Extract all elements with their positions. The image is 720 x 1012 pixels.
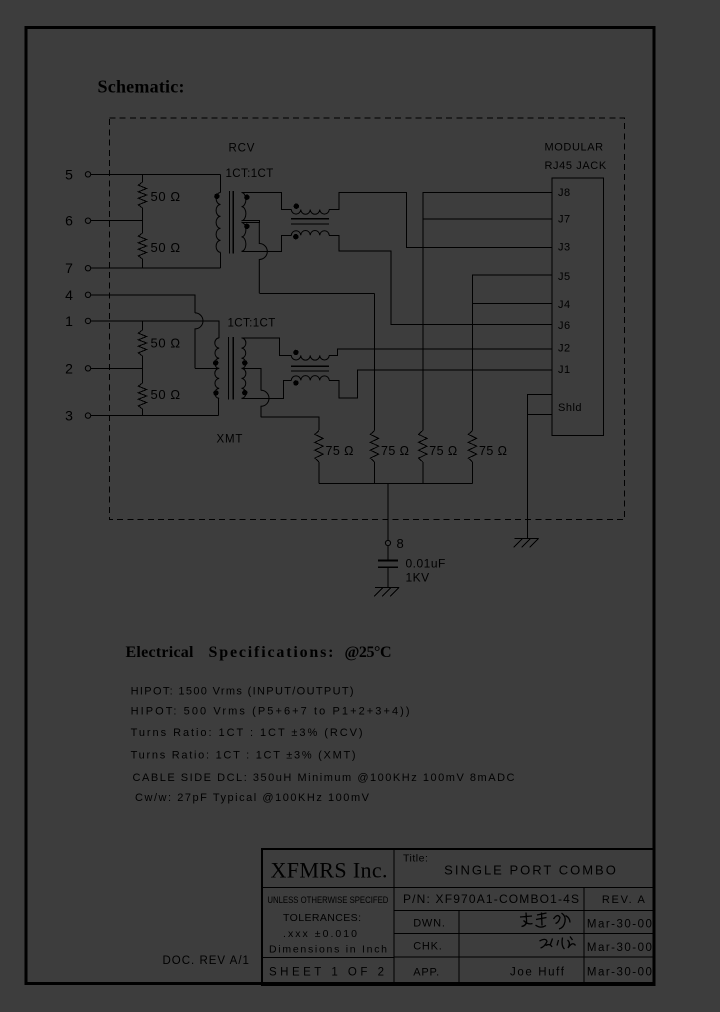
transformer T2 primary dots [213,360,218,365]
svg-text:RCV: RCV [229,143,256,155]
transformer T1 secondary lower winding [242,223,246,252]
choke L1 lower winding [291,231,329,236]
wire T1 secondary top to choke L1 upper [242,193,292,210]
wire T1 secondary bottom to choke L1 lower [242,235,292,251]
svg-text:50 Ω: 50 Ω [151,387,181,402]
svg-text:SINGLE PORT COMBO: SINGLE PORT COMBO [444,863,618,878]
wire T1 center tap to R6 [259,292,374,294]
svg-text:Specifications:: Specifications: [209,644,334,661]
wire J7 branch [423,218,552,220]
transformer T2 primary bottom lead [218,398,220,415]
wire T2 secondary bottom to choke L2 lower [242,380,292,398]
svg-text:Schematic:: Schematic: [98,77,185,97]
svg-text:75 Ω: 75 Ω [326,444,354,458]
wire bus to node 8 [387,483,389,540]
resistor R3 50ohm [138,330,146,356]
svg-text:REV. A: REV. A [602,894,646,906]
pin 3 terminal circle [85,413,90,418]
wire pin4 to XMT primary center tap with hop over pin1 wire [91,295,195,313]
title block horizontal DWN row bottom [394,933,654,935]
resistor R4 50ohm [138,383,146,409]
wire node 8 to C1 [387,546,389,560]
svg-text:J3: J3 [558,242,571,254]
svg-text:8: 8 [397,536,404,551]
svg-text:Cw/w: 27pF Typical @100KHz 100: Cw/w: 27pF Typical @100KHz 100mV [135,792,370,804]
wire pin2 to 50ohm junction [91,367,143,369]
transformer T1 secondary lower dot [244,224,249,229]
wire R5 bottom stub [318,462,320,483]
svg-text:Electrical: Electrical [126,644,195,661]
svg-text:DWN.: DWN. [413,917,446,929]
svg-text:5: 5 [65,166,73,182]
capacitor C1 plates [378,560,398,562]
svg-text:Dimensions in Inch: Dimensions in Inch [269,943,387,955]
svg-text:75 Ω: 75 Ω [479,444,507,458]
connector J1 RJ45 jack body [552,178,604,436]
title block vertical divider dates [583,887,585,985]
wire R8 bottom stub [472,462,474,483]
svg-text:6: 6 [65,213,73,229]
wire C1 to ground [387,567,389,587]
svg-text:Joe Huff: Joe Huff [510,966,565,978]
pin 6 terminal circle [85,218,90,223]
signature DWN chinese [520,913,570,930]
wire T1 center tap bracket [242,221,260,223]
svg-text:2: 2 [65,360,73,376]
wire R3 bottom to R4 top (junction pin2) [142,356,144,383]
wire J8 from R7 net [423,192,552,430]
resistor R8 75ohm [468,431,476,463]
wire choke L1 lower out to J6 [329,235,552,324]
svg-text:Mar-30-00: Mar-30-00 [587,942,652,954]
svg-text:75 Ω: 75 Ω [429,444,457,458]
wire R2 bottom stub [142,259,144,268]
resistor R7 75ohm [419,431,427,463]
wire choke L1 upper out to J3 [329,192,552,247]
choke L2 upper winding [291,355,329,360]
svg-text:CHK.: CHK. [413,941,442,953]
wire pin5 to RCV primary top and R1 [91,173,221,175]
node 8 terminal circle [385,540,390,545]
transformer T2 secondary upper winding [242,338,246,369]
wire shield to ground [527,414,529,538]
svg-text:XFMRS Inc.: XFMRS Inc. [271,858,388,883]
transformer T2 primary upper winding [215,338,219,369]
svg-text:TOLERANCES:: TOLERANCES: [283,912,361,924]
svg-text:J1: J1 [558,364,571,376]
resistor R5 75ohm [315,431,323,463]
wire T2 secondary top to choke L2 upper [242,338,292,356]
svg-text:DOC. REV A/1: DOC. REV A/1 [163,955,250,967]
svg-text:Title:: Title: [403,853,428,865]
resistor R2 50ohm [138,233,146,259]
svg-text:7: 7 [65,260,73,276]
choke L2 upper dot [293,350,298,355]
choke L1 upper dot [294,204,299,209]
ground symbol shield [515,538,539,540]
transformer T2 secondary lower winding [242,368,246,398]
svg-text:SHEET 1 OF 2: SHEET 1 OF 2 [269,967,384,979]
wire R1 top stub [142,174,144,182]
wire T1 center tap down with hop [259,223,267,294]
schematic dashed boundary box [110,118,625,520]
svg-text:UNLESS OTHERWISE SPECIFED: UNLESS OTHERWISE SPECIFED [267,895,388,906]
svg-text:Turns Ratio: 1CT : 1CT ±3% (R: Turns Ratio: 1CT : 1CT ±3% (RCV) [131,727,363,739]
svg-text:0.01uF: 0.01uF [406,557,446,571]
transformer T2 primary lower winding [215,368,219,398]
wire J4 branch [473,302,552,304]
transformer T1 primary dot [214,194,219,199]
svg-text:4: 4 [65,287,73,303]
svg-text:Turns Ratio: 1CT : 1CT ±3% (XM: Turns Ratio: 1CT : 1CT ±3% (XMT) [131,749,356,761]
svg-text:50 Ω: 50 Ω [151,240,181,255]
svg-text:CABLE SIDE DCL: 350uH Minimum: CABLE SIDE DCL: 350uH Minimum @100KHz 10… [133,772,515,784]
wire J5 from R8 net [473,275,552,431]
svg-text:J8: J8 [558,187,571,199]
title block horizontal P/N row bottom [394,909,654,911]
svg-text:50 Ω: 50 Ω [151,189,181,204]
wire pin1 to XMT primary top [91,321,220,338]
wire choke L2 upper out to J2 [329,349,552,356]
svg-text:HIPOT: 1500 Vrms (INPUT/OUTPUT: HIPOT: 1500 Vrms (INPUT/OUTPUT) [131,686,354,698]
svg-text:J5: J5 [558,271,571,283]
transformer T1 primary winding [216,193,220,253]
title block outer border [262,849,654,985]
choke L2 core [291,365,329,367]
transformer T1 primary bottom lead [220,252,222,268]
choke L1 core [291,218,329,220]
wire T2 center tap with hop to R5 [243,368,261,390]
svg-text:J2: J2 [558,343,571,355]
transformer T1 secondary upper winding [242,193,246,221]
wire pin3 to XMT primary bottom [91,415,219,417]
pin 1 terminal circle [85,318,90,323]
wire R1 bottom to R2 top (junction pin6) [142,208,144,233]
title block horizontal row line 1 [262,886,654,888]
title block horizontal CHK row bottom [394,956,654,958]
svg-text:Mar-30-00: Mar-30-00 [587,967,652,979]
svg-text:J6: J6 [558,320,571,332]
resistor R1 50ohm [138,182,146,208]
svg-text:APP.: APP. [413,967,440,979]
svg-text:XMT: XMT [217,434,244,446]
wire R6 bottom stub [374,462,376,483]
transformer T1 core [229,191,231,254]
svg-text:P/N: XF970A1-COMBO1-4S: P/N: XF970A1-COMBO1-4S [403,892,579,906]
wire termination bus [319,482,473,484]
pin 7 terminal circle [85,266,90,271]
pin 2 terminal circle [85,366,90,371]
choke L1 lower dot [293,234,298,239]
pin 5 terminal circle [85,172,90,177]
choke L2 lower winding [291,376,329,381]
transformer T1 primary top lead [220,174,222,192]
wire down to R6 top [374,293,376,430]
title block vertical divider labels [458,910,460,985]
wire pin6 to junction [91,220,143,222]
choke L1 upper winding [291,210,329,215]
transformer T1 secondary upper dot [244,195,249,200]
wire R4 bottom stub [142,409,144,416]
ground symbol below C1 [375,587,399,589]
svg-text:RJ45 JACK: RJ45 JACK [545,160,607,172]
resistor R6 75ohm [370,431,378,463]
wire pin7 to RCV primary bottom [91,267,221,269]
svg-text:Shld: Shld [558,402,582,414]
svg-text:1KV: 1KV [406,571,430,585]
svg-text:75 Ω: 75 Ω [381,444,409,458]
transformer T2 core [227,337,229,400]
svg-text:50 Ω: 50 Ω [151,336,181,351]
choke L2 lower dot [293,380,298,385]
title block vertical divider left column [393,849,395,985]
title block horizontal left tolerances bottom [262,956,394,958]
svg-text:.xxx ±0.010: .xxx ±0.010 [283,928,357,940]
svg-text:MODULAR: MODULAR [545,142,604,154]
wire choke L2 lower out to J1 [329,370,552,398]
svg-text:J7: J7 [558,214,571,226]
svg-text:Mar-30-00: Mar-30-00 [587,919,652,931]
wire R7 bottom stub [422,462,424,483]
svg-text:HIPOT: 500 Vrms (P5+6+7 to P1+: HIPOT: 500 Vrms (P5+6+7 to P1+2+3+4)) [131,706,410,718]
wire shield bracket [528,394,552,414]
svg-text:1CT:1CT: 1CT:1CT [226,168,274,180]
signature CHK chinese [540,937,576,950]
wire R3 top stub [142,321,144,330]
pin 4 terminal circle [85,292,90,297]
svg-text:@25°C: @25°C [345,644,392,661]
svg-text:1CT:1CT: 1CT:1CT [228,318,276,330]
svg-text:3: 3 [65,408,73,424]
svg-text:1: 1 [65,313,73,329]
transformer T2 secondary dots [242,360,247,365]
svg-text:J4: J4 [558,299,571,311]
